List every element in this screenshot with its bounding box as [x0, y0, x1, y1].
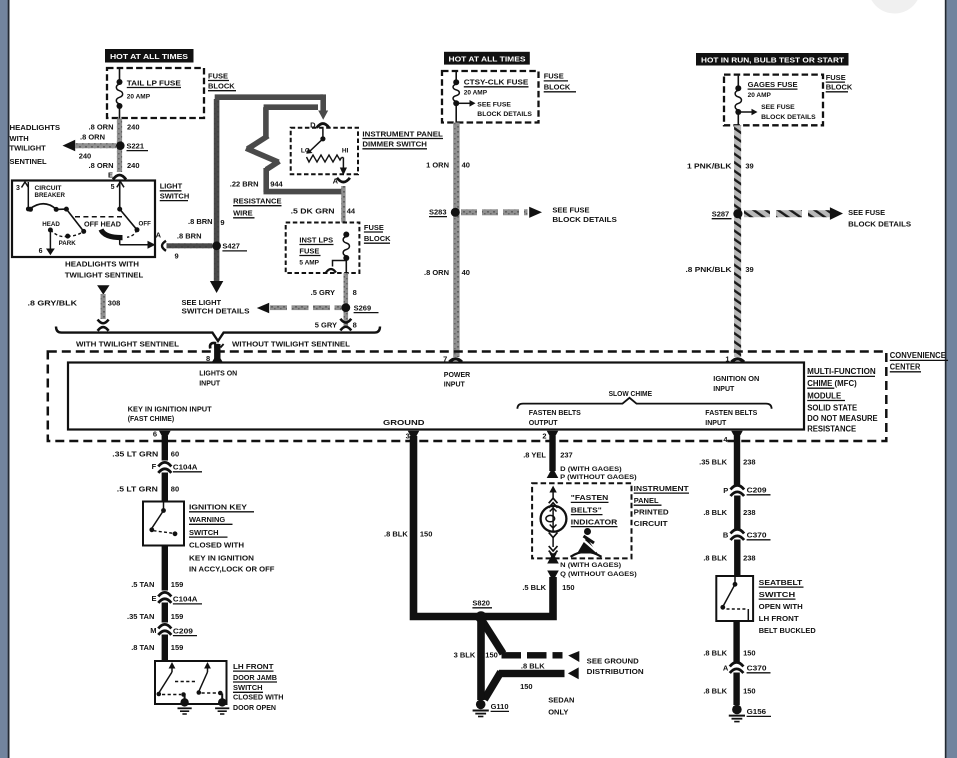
svg-text:BLOCK: BLOCK: [364, 234, 391, 243]
svg-text:S221: S221: [127, 141, 145, 150]
svg-text:S820: S820: [472, 599, 490, 608]
svg-text:C104A: C104A: [173, 595, 198, 604]
svg-text:150: 150: [743, 649, 756, 658]
svg-text:S283: S283: [429, 207, 447, 216]
svg-text:PRINTED: PRINTED: [634, 508, 670, 517]
svg-text:5 GRY: 5 GRY: [315, 321, 337, 330]
svg-text:.8 ORN: .8 ORN: [424, 268, 449, 277]
svg-text:.8 ORN: .8 ORN: [88, 161, 113, 170]
svg-text:1 ORN: 1 ORN: [426, 161, 449, 170]
svg-text:M: M: [150, 626, 156, 635]
svg-text:.22 BRN: .22 BRN: [230, 179, 259, 188]
svg-text:BLOCK: BLOCK: [826, 83, 853, 92]
svg-text:BELT BUCKLED: BELT BUCKLED: [759, 626, 817, 635]
svg-text:150: 150: [485, 650, 498, 659]
svg-text:GROUND: GROUND: [383, 420, 425, 427]
svg-text:CLOSED WITH: CLOSED WITH: [189, 541, 244, 550]
svg-text:.8 BRN: .8 BRN: [177, 232, 202, 241]
svg-text:CENTER: CENTER: [890, 363, 921, 372]
svg-text:238: 238: [743, 458, 756, 467]
svg-text:.5 TAN: .5 TAN: [131, 580, 154, 589]
svg-text:.5 BLK: .5 BLK: [522, 583, 546, 592]
svg-text:C209: C209: [173, 626, 193, 635]
svg-text:.8 BLK: .8 BLK: [703, 687, 727, 696]
svg-text:C104A: C104A: [173, 463, 198, 472]
svg-text:DIMMER SWITCH: DIMMER SWITCH: [362, 140, 427, 149]
svg-text:CHIME (MFC): CHIME (MFC): [807, 379, 857, 388]
svg-text:150: 150: [520, 682, 533, 691]
svg-text:944: 944: [270, 179, 283, 188]
svg-text:238: 238: [743, 508, 756, 517]
svg-text:PANEL: PANEL: [634, 496, 659, 505]
svg-text:CIRCUIT: CIRCUIT: [35, 186, 62, 192]
svg-text:INPUT: INPUT: [444, 381, 466, 388]
svg-text:BLOCK DETAILS: BLOCK DETAILS: [848, 220, 911, 229]
svg-text:SWITCH: SWITCH: [233, 683, 263, 692]
svg-text:40: 40: [462, 268, 470, 277]
svg-text:BLOCK DETAILS: BLOCK DETAILS: [761, 114, 816, 121]
svg-text:3: 3: [406, 431, 410, 440]
svg-text:.8 ORN: .8 ORN: [80, 133, 105, 142]
svg-text:FUSE: FUSE: [364, 223, 384, 232]
svg-text:OUTPUT: OUTPUT: [529, 420, 559, 427]
svg-text:40: 40: [462, 161, 470, 170]
svg-text:INSTRUMENT PANEL: INSTRUMENT PANEL: [362, 129, 443, 138]
svg-text:BLOCK: BLOCK: [544, 83, 571, 92]
svg-text:159: 159: [171, 612, 184, 621]
svg-text:.5 DK GRN: .5 DK GRN: [291, 206, 335, 215]
svg-text:OFF: OFF: [139, 220, 152, 227]
svg-text:308: 308: [108, 299, 121, 308]
svg-text:39: 39: [745, 265, 753, 274]
svg-text:6: 6: [39, 248, 43, 255]
svg-text:60: 60: [171, 449, 179, 458]
svg-text:HOT AT ALL TIMES: HOT AT ALL TIMES: [110, 54, 188, 61]
svg-text:.8 BLK: .8 BLK: [703, 554, 727, 563]
svg-text:SEE GROUND: SEE GROUND: [587, 656, 640, 665]
svg-text:80: 80: [171, 485, 179, 494]
svg-text:BREAKER: BREAKER: [35, 193, 66, 199]
svg-text:RESISTANCE: RESISTANCE: [233, 197, 282, 206]
svg-text:SWITCH: SWITCH: [160, 191, 190, 200]
svg-text:P (WITHOUT GAGES): P (WITHOUT GAGES): [560, 474, 637, 481]
svg-text:FASTEN BELTS: FASTEN BELTS: [705, 410, 757, 417]
svg-text:F: F: [152, 462, 157, 471]
svg-text:SEATBELT: SEATBELT: [759, 578, 803, 587]
svg-text:.8 BRN: .8 BRN: [188, 217, 213, 226]
svg-text:20 AMP: 20 AMP: [464, 90, 488, 97]
svg-text:INDICATOR: INDICATOR: [571, 517, 618, 526]
svg-text:6: 6: [153, 430, 157, 439]
svg-text:G110: G110: [491, 702, 509, 711]
svg-text:.8 BLK: .8 BLK: [384, 529, 408, 538]
svg-text:BLOCK: BLOCK: [208, 82, 235, 91]
svg-text:20 AMP: 20 AMP: [127, 94, 151, 101]
svg-text:8: 8: [353, 288, 357, 297]
svg-text:SWITCH: SWITCH: [189, 528, 219, 537]
svg-text:238: 238: [743, 554, 756, 563]
svg-text:.8 BLK: .8 BLK: [521, 662, 545, 671]
svg-text:TWILIGHT: TWILIGHT: [10, 144, 47, 153]
svg-text:TWILIGHT SENTINEL: TWILIGHT SENTINEL: [65, 271, 144, 280]
svg-text:E: E: [108, 170, 113, 179]
svg-text:150: 150: [562, 583, 575, 592]
svg-text:OFF HEAD: OFF HEAD: [84, 219, 121, 228]
svg-text:BLOCK DETAILS: BLOCK DETAILS: [552, 215, 617, 224]
svg-text:P: P: [723, 486, 728, 495]
svg-text:BLOCK DETAILS: BLOCK DETAILS: [477, 111, 532, 118]
svg-text:.5 GRY: .5 GRY: [311, 288, 335, 297]
svg-text:1 PNK/BLK: 1 PNK/BLK: [687, 161, 732, 170]
svg-text:S287: S287: [712, 210, 730, 219]
svg-text:LIGHTS ON: LIGHTS ON: [199, 371, 237, 378]
svg-text:CLOSED WITH: CLOSED WITH: [233, 693, 284, 702]
svg-text:SEE FUSE: SEE FUSE: [848, 208, 885, 217]
svg-text:.35 TAN: .35 TAN: [127, 612, 154, 621]
svg-text:159: 159: [171, 643, 184, 652]
svg-text:MODULE: MODULE: [807, 391, 842, 400]
svg-text:IN ACCY,LOCK OR OFF: IN ACCY,LOCK OR OFF: [189, 565, 275, 574]
svg-text:8: 8: [206, 354, 210, 363]
svg-text:SWITCH DETAILS: SWITCH DETAILS: [182, 306, 250, 315]
svg-text:PARK: PARK: [59, 240, 77, 247]
svg-text:E: E: [151, 594, 156, 603]
svg-text:DO NOT MEASURE: DO NOT MEASURE: [807, 414, 878, 423]
svg-text:D (WITH GAGES): D (WITH GAGES): [560, 466, 622, 473]
svg-text:FASTEN BELTS: FASTEN BELTS: [529, 410, 581, 417]
svg-text:(FAST CHIME): (FAST CHIME): [128, 416, 175, 423]
svg-text:IGNITION ON: IGNITION ON: [713, 376, 759, 383]
svg-text:LH FRONT: LH FRONT: [233, 662, 274, 671]
svg-text:CTSY-CLK FUSE: CTSY-CLK FUSE: [464, 78, 529, 87]
svg-text:SENTINEL: SENTINEL: [10, 157, 48, 166]
svg-text:HI: HI: [342, 147, 349, 154]
svg-text:FUSE: FUSE: [826, 73, 846, 82]
svg-text:ONLY: ONLY: [548, 708, 568, 717]
svg-text:BELTS": BELTS": [571, 505, 602, 514]
svg-text:SLOW CHIME: SLOW CHIME: [609, 391, 653, 398]
svg-text:HOT IN RUN, BULB TEST OR START: HOT IN RUN, BULB TEST OR START: [701, 57, 845, 64]
svg-text:SOLID STATE: SOLID STATE: [807, 403, 858, 412]
svg-text:.5 LT GRN: .5 LT GRN: [117, 485, 158, 494]
svg-text:WARNING: WARNING: [189, 515, 225, 524]
svg-text:SEE FUSE: SEE FUSE: [477, 101, 511, 108]
svg-text:.8 PNK/BLK: .8 PNK/BLK: [686, 265, 733, 274]
svg-text:5: 5: [111, 184, 115, 191]
svg-text:LO: LO: [301, 147, 310, 154]
svg-text:"FASTEN: "FASTEN: [571, 493, 609, 502]
svg-text:Q (WITHOUT GAGES): Q (WITHOUT GAGES): [560, 571, 637, 578]
svg-text:N (WITH GAGES): N (WITH GAGES): [560, 562, 621, 569]
svg-text:FUSE: FUSE: [299, 246, 319, 255]
svg-text:MULTI-FUNCTION: MULTI-FUNCTION: [807, 367, 876, 376]
svg-text:S269: S269: [354, 303, 372, 312]
svg-text:CONVENIENCE: CONVENIENCE: [890, 351, 947, 360]
svg-text:.35 LT GRN: .35 LT GRN: [112, 449, 158, 458]
svg-text:C209: C209: [747, 486, 767, 495]
svg-text:A: A: [723, 664, 729, 673]
svg-text:KEY IN IGNITION INPUT: KEY IN IGNITION INPUT: [128, 406, 213, 413]
svg-text:8: 8: [353, 321, 357, 330]
svg-text:WIRE: WIRE: [233, 209, 253, 218]
svg-text:WITH: WITH: [10, 134, 29, 143]
svg-text:INPUT: INPUT: [199, 380, 221, 387]
svg-text:G156: G156: [747, 707, 767, 716]
svg-text:240: 240: [79, 152, 92, 161]
svg-text:SWITCH: SWITCH: [759, 590, 796, 599]
svg-text:HEAD: HEAD: [42, 221, 60, 228]
svg-text:237: 237: [560, 451, 573, 460]
svg-text:159: 159: [171, 580, 184, 589]
svg-text:GAGES FUSE: GAGES FUSE: [748, 80, 798, 89]
svg-text:SEE FUSE: SEE FUSE: [552, 205, 589, 214]
svg-text:INPUT: INPUT: [713, 386, 735, 393]
svg-text:3: 3: [16, 185, 20, 192]
svg-text:FUSE: FUSE: [544, 72, 564, 81]
svg-text:.8 YEL: .8 YEL: [523, 451, 546, 460]
svg-text:DOOR JAMB: DOOR JAMB: [233, 673, 278, 682]
svg-text:SEDAN: SEDAN: [548, 696, 574, 705]
svg-text:.8 BLK: .8 BLK: [703, 649, 727, 658]
svg-text:FUSE: FUSE: [208, 71, 228, 80]
svg-text:IGNITION KEY: IGNITION KEY: [189, 503, 247, 512]
svg-text:LH FRONT: LH FRONT: [759, 614, 799, 623]
svg-text:240: 240: [127, 161, 140, 170]
svg-text:INST LPS: INST LPS: [299, 235, 333, 244]
svg-text:.8 GRY/BLK: .8 GRY/BLK: [28, 299, 78, 308]
svg-text:RESISTANCE: RESISTANCE: [807, 424, 857, 433]
svg-text:2: 2: [542, 432, 546, 441]
svg-text:SEE FUSE: SEE FUSE: [761, 104, 795, 111]
svg-text:CIRCUIT: CIRCUIT: [634, 519, 668, 528]
svg-text:9: 9: [175, 251, 179, 260]
svg-text:INPUT: INPUT: [705, 420, 727, 427]
svg-text:OPEN WITH: OPEN WITH: [759, 602, 803, 611]
svg-text:9: 9: [220, 218, 224, 227]
svg-text:DOOR OPEN: DOOR OPEN: [233, 703, 276, 712]
svg-text:DISTRIBUTION: DISTRIBUTION: [587, 667, 644, 676]
svg-text:A: A: [156, 231, 162, 240]
svg-text:.8 ORN: .8 ORN: [88, 122, 113, 131]
svg-text:LIGHT: LIGHT: [160, 182, 183, 191]
svg-text:.8 TAN: .8 TAN: [131, 643, 154, 652]
svg-text:3 BLK: 3 BLK: [454, 650, 476, 659]
svg-text:.35 BLK: .35 BLK: [699, 458, 728, 467]
svg-text:.8 BLK: .8 BLK: [703, 508, 727, 517]
svg-text:44: 44: [347, 206, 356, 215]
svg-text:39: 39: [745, 161, 753, 170]
svg-text:INSTRUMENT: INSTRUMENT: [634, 484, 689, 493]
svg-text:S427: S427: [222, 242, 240, 251]
svg-text:240: 240: [127, 122, 140, 131]
svg-text:HOT AT ALL TIMES: HOT AT ALL TIMES: [449, 56, 526, 63]
svg-text:TAIL LP FUSE: TAIL LP FUSE: [127, 78, 181, 87]
svg-text:C370: C370: [747, 664, 767, 673]
svg-text:WITH TWILIGHT SENTINEL: WITH TWILIGHT SENTINEL: [76, 340, 179, 349]
svg-text:KEY IN IGNITION: KEY IN IGNITION: [189, 554, 254, 563]
svg-text:20 AMP: 20 AMP: [748, 92, 772, 99]
svg-text:150: 150: [420, 529, 433, 538]
svg-text:HEADLIGHTS WITH: HEADLIGHTS WITH: [65, 259, 139, 268]
svg-text:5 AMP: 5 AMP: [299, 260, 319, 267]
svg-text:B: B: [723, 531, 729, 540]
svg-text:WITHOUT TWILIGHT SENTINEL: WITHOUT TWILIGHT SENTINEL: [232, 340, 350, 349]
svg-text:HEADLIGHTS: HEADLIGHTS: [10, 123, 61, 132]
svg-text:POWER: POWER: [444, 372, 470, 379]
svg-text:150: 150: [743, 687, 756, 696]
svg-text:C370: C370: [747, 531, 767, 540]
